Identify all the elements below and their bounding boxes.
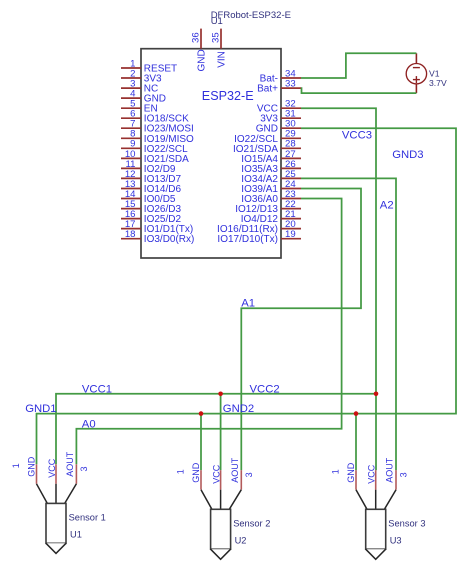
svg-text:AOUT: AOUT [230, 457, 240, 483]
svg-text:GND: GND [197, 49, 208, 71]
wire GND net: pin30 down, across GND row, up-left to sensor1 GND [37, 128, 457, 464]
sensor U3 pin 3 AOUT lead [395, 470, 397, 490]
sensor U2 pin 1 GND lead [200, 470, 202, 490]
svg-text:35: 35 [211, 32, 222, 43]
svg-text:36: 36 [191, 32, 202, 43]
sensor U1 pin 2 VCC lead [55, 464, 57, 484]
sensor U3 probe tip [366, 549, 386, 559]
sensor U2 body connectors [201, 490, 212, 510]
pin 6 IO18/SCK [121, 109, 189, 125]
battery V1 3.7V [406, 53, 447, 93]
sensor U1 pin 1 GND lead [36, 464, 38, 484]
svg-text:3: 3 [79, 466, 89, 471]
wire A0 net: pin23 down-left to sensor1 AOUT [76, 199, 341, 465]
pin 31 3V3 [260, 109, 301, 125]
svg-text:VIN: VIN [217, 51, 228, 68]
svg-text:GND: GND [27, 456, 37, 477]
pin 22 IO12/D13 [235, 199, 301, 215]
sensor U3 pin 2 VCC lead [375, 470, 377, 490]
wire A2 net: pin25 down to sensor3 AOUT [301, 178, 396, 470]
pin 8 IO19/MISO [121, 129, 194, 145]
wire Bat- pin34 to battery top [301, 53, 416, 78]
pin 5 EN [121, 99, 158, 115]
svg-text:19: 19 [285, 229, 296, 240]
pin 18 IO3/D0(Rx) [121, 229, 194, 245]
svg-text:AOUT: AOUT [65, 451, 75, 477]
svg-text:U3: U3 [390, 535, 402, 545]
svg-text:VCC: VCC [47, 458, 57, 478]
pin 11 IO2/D9 [121, 159, 176, 175]
junction VCC/sensor2 [218, 392, 223, 397]
sensor U2 pin 2 VCC lead [220, 470, 222, 490]
moisture probe sensor U3 (Sensor 3) [331, 457, 426, 559]
svg-text:VCC: VCC [367, 464, 377, 484]
pin 9 IO22/SCL [121, 139, 188, 155]
U1 reference and value labels [211, 10, 291, 27]
pin 24 IO39/A1 [241, 179, 301, 195]
pin 16 IO25/D2 [121, 209, 181, 225]
wire Bat+ pin33 to battery bottom [301, 88, 416, 93]
pin 7 IO23/MOSI [121, 119, 194, 135]
pin 17 IO1/D1(Tx) [121, 219, 193, 235]
pin 35 VIN (top) [211, 29, 228, 68]
pin 29 IO22/SCL [234, 129, 301, 145]
svg-text:3: 3 [399, 472, 409, 477]
sensor U1 probe tip [46, 543, 66, 553]
sensor U1 body connectors [37, 484, 48, 504]
svg-text:AOUT: AOUT [385, 457, 395, 483]
svg-text:A0: A0 [82, 419, 96, 431]
svg-text:A2: A2 [380, 200, 394, 212]
sensor U2 probe body [211, 509, 231, 549]
svg-text:18: 18 [125, 229, 136, 240]
svg-text:GND: GND [191, 462, 201, 483]
pin 20 IO16/D11(Rx) [217, 219, 301, 235]
sensor U3 probe body [366, 509, 386, 549]
pin 32 VCC [257, 99, 301, 115]
pin 13 IO14/D6 [121, 179, 181, 195]
svg-text:V1: V1 [429, 68, 440, 78]
pin 33 Bat+ [257, 79, 301, 95]
svg-text:IO17/D10(Tx): IO17/D10(Tx) [217, 234, 278, 245]
sensor U1 probe body [46, 503, 66, 543]
svg-text:Sensor 3: Sensor 3 [388, 518, 425, 528]
junction GND/sensor3 [354, 411, 359, 416]
pin 27 IO15/A4 [241, 149, 301, 165]
svg-text:3: 3 [244, 472, 254, 477]
wire VCC net: pin32 down to sensor3 VCC [301, 108, 376, 470]
pin 23 IO36/A0 [241, 189, 301, 205]
pin 3 NC [121, 79, 158, 95]
pin 34 Bat- [260, 68, 301, 84]
pin 36 GND (top) [191, 29, 208, 72]
svg-text:ESP32-E: ESP32-E [202, 89, 254, 103]
svg-text:GND2: GND2 [223, 403, 254, 415]
svg-text:IO3/D0(Rx): IO3/D0(Rx) [144, 234, 195, 245]
svg-text:A1: A1 [241, 298, 255, 310]
sensor U2 pin 3 AOUT lead [240, 470, 242, 490]
pin 30 GND [256, 119, 301, 135]
svg-text:3.7V: 3.7V [429, 78, 447, 88]
wire sensor2 VCC drop [220, 394, 222, 470]
pin 4 GND [121, 89, 166, 105]
svg-text:U1: U1 [211, 16, 223, 27]
svg-text:1: 1 [176, 469, 186, 474]
pin 25 IO34/A2 [241, 169, 301, 185]
sensor U1 pin 3 AOUT lead [75, 464, 77, 484]
svg-text:Sensor 2: Sensor 2 [233, 518, 270, 528]
svg-text:GND3: GND3 [392, 149, 423, 161]
pin 21 IO4/D12 [241, 209, 301, 225]
pin 19 IO17/D10(Tx) [217, 229, 301, 245]
pin 2 3V3 [121, 68, 162, 84]
svg-text:GND: GND [346, 462, 356, 483]
junction GND/sensor2 [199, 411, 204, 416]
svg-text:1: 1 [11, 463, 21, 468]
pin 12 IO13/D7 [121, 169, 181, 185]
junction VCC/pin32 [374, 392, 379, 397]
pin 10 IO21/SDA [121, 149, 189, 165]
sensor U3 body connectors [356, 490, 367, 510]
svg-text:GND1: GND1 [25, 403, 56, 415]
IC U1 DFRobot-ESP32-E body [141, 49, 281, 258]
pin 28 IO21/SDA [233, 139, 301, 155]
sensor U2 probe tip [211, 549, 231, 559]
svg-text:U2: U2 [235, 535, 247, 545]
wire sensor3 GND drop [355, 414, 357, 471]
sensor U3 pin 1 GND lead [355, 470, 357, 490]
pin 14 IO0/D5 [121, 189, 176, 205]
svg-text:VCC: VCC [212, 464, 222, 484]
pin 26 IO35/A3 [241, 159, 301, 175]
moisture probe sensor U1 (Sensor 1) [11, 451, 106, 553]
svg-text:VCC1: VCC1 [82, 383, 112, 395]
svg-text:Sensor 1: Sensor 1 [69, 512, 106, 522]
wire sensor2 GND drop [200, 414, 202, 471]
moisture probe sensor U2 (Sensor 2) [176, 457, 271, 559]
wire A1 net: pin24 down-left to sensor2 AOUT [241, 189, 361, 471]
svg-text:Bat+: Bat+ [257, 84, 278, 95]
wire VCC row to sensor1 VCC [56, 394, 376, 465]
svg-text:VCC3: VCC3 [342, 130, 372, 142]
svg-text:U1: U1 [70, 529, 82, 539]
svg-text:33: 33 [285, 79, 296, 90]
pin 1 RESET [121, 58, 177, 74]
pin 15 IO26/D3 [121, 199, 181, 215]
svg-text:1: 1 [331, 469, 341, 474]
svg-text:VCC2: VCC2 [250, 383, 280, 395]
